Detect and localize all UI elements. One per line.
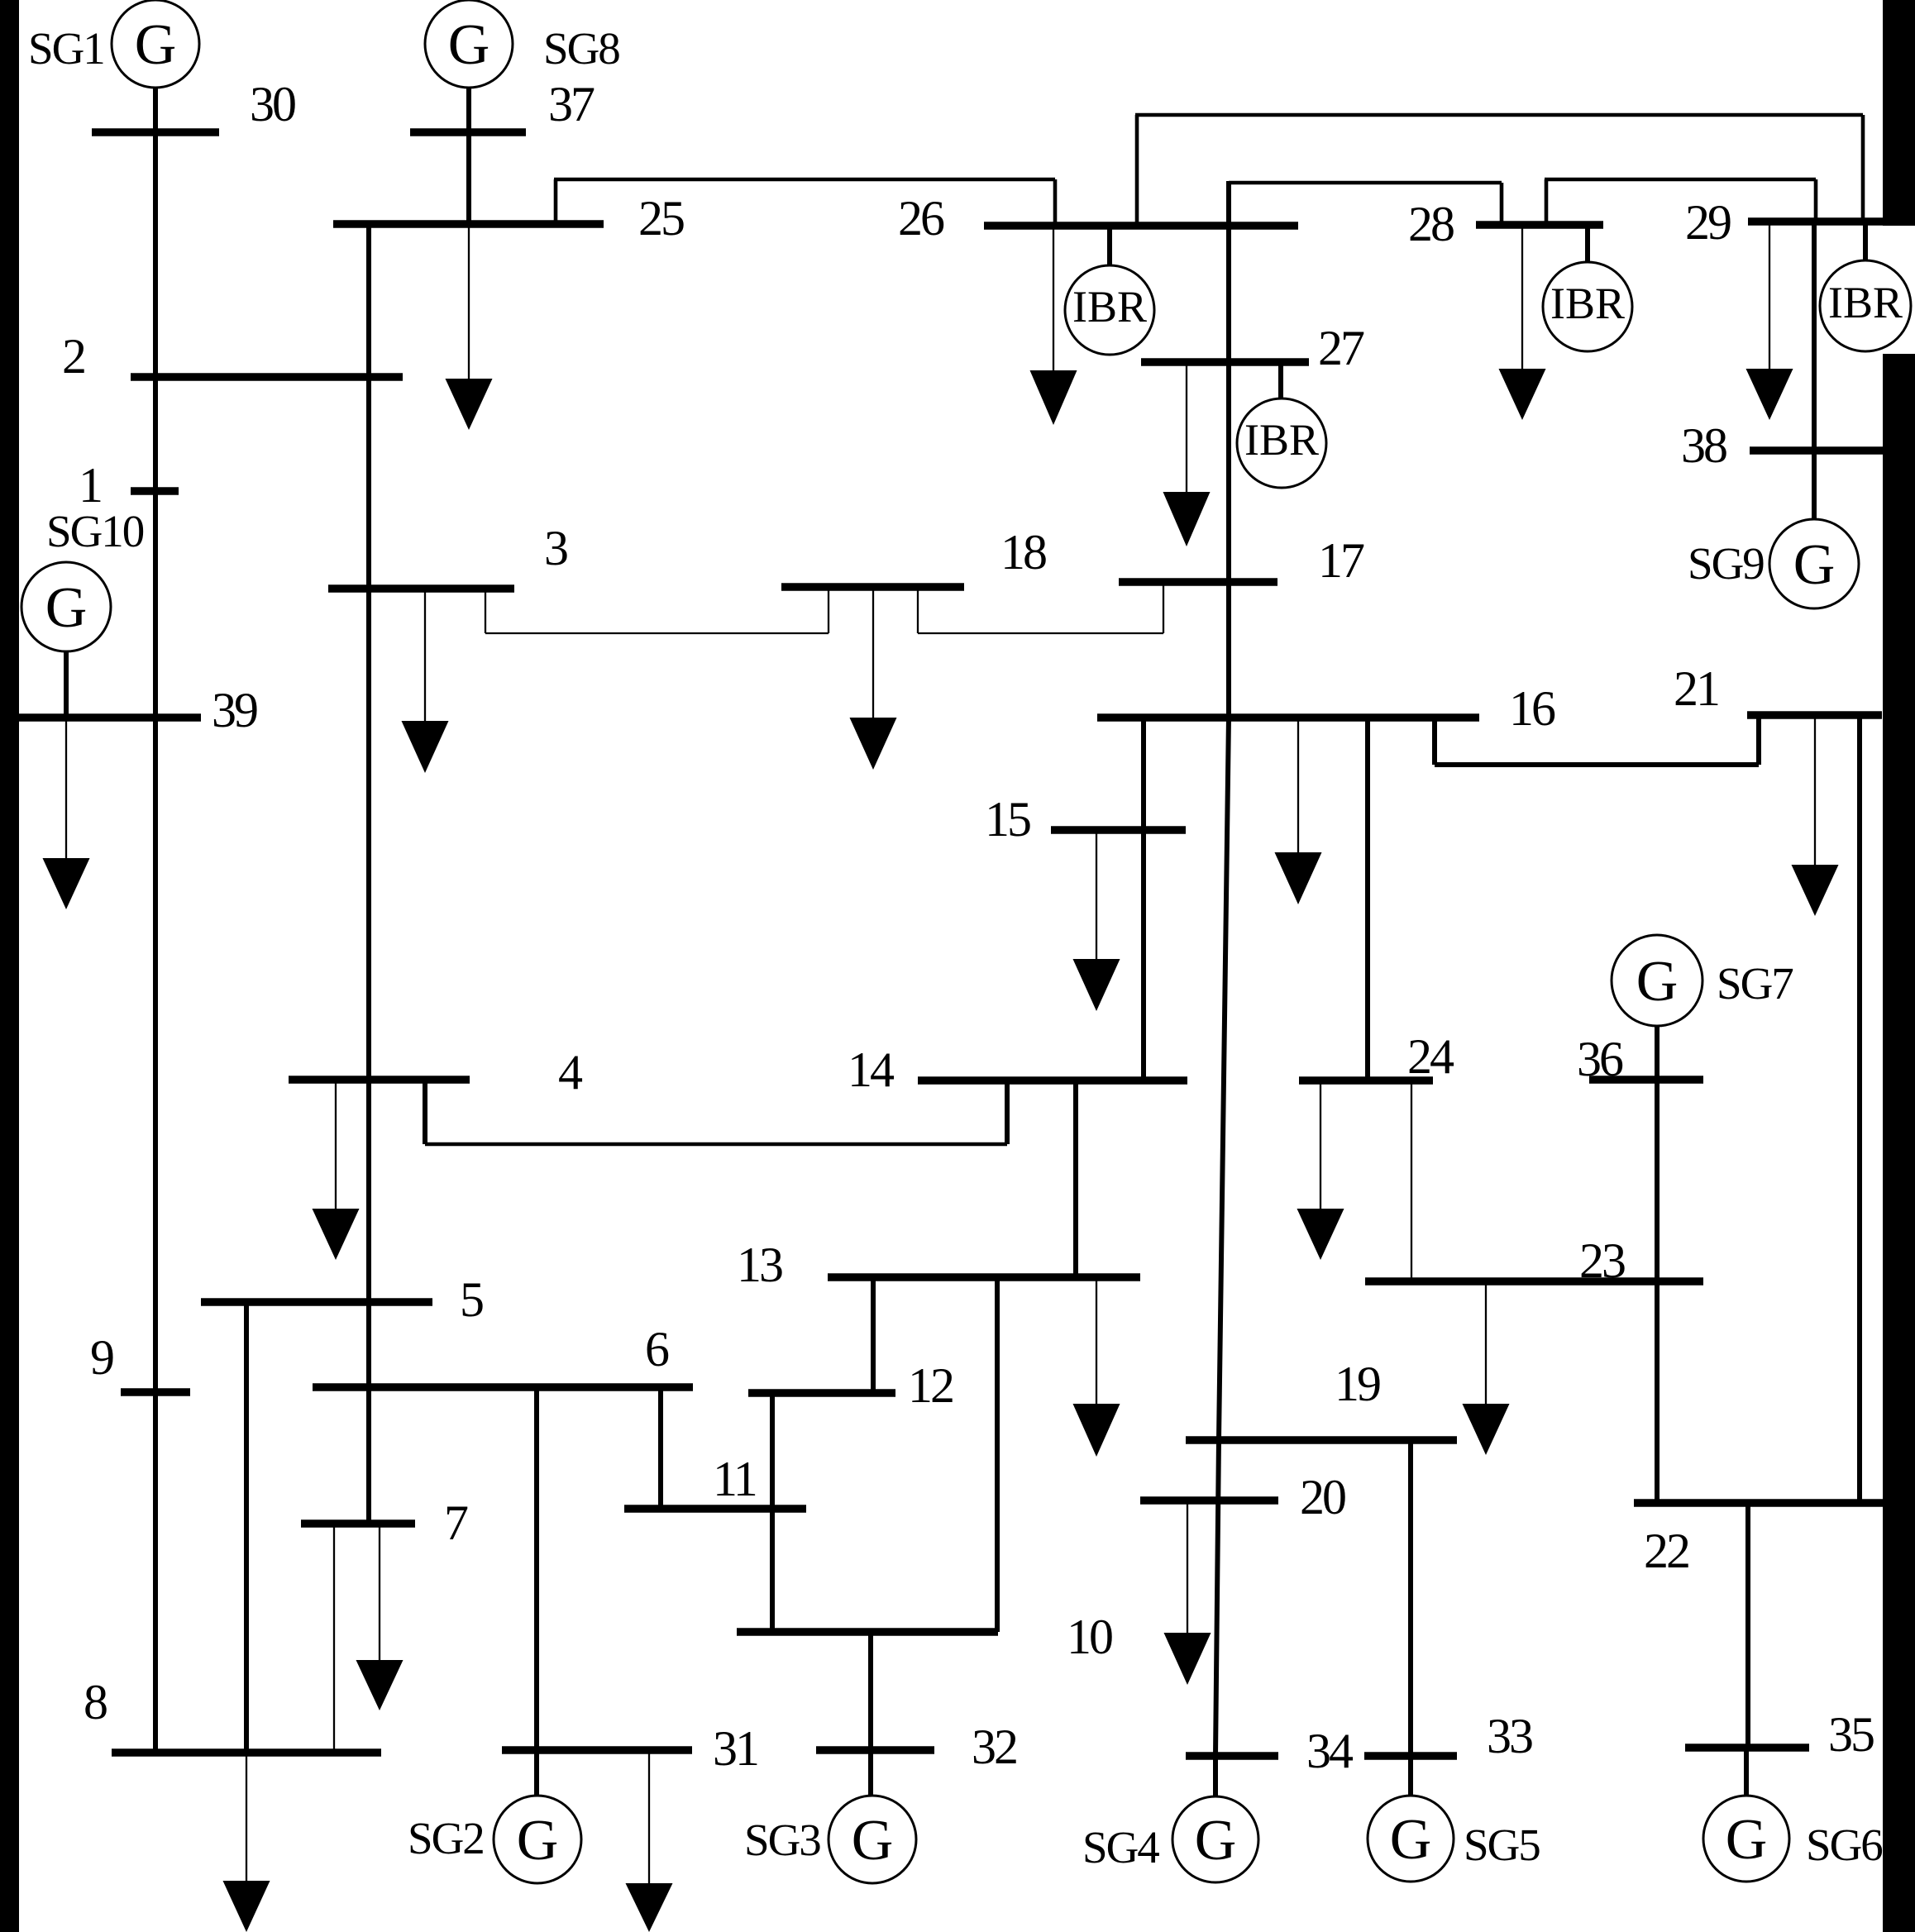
wire 26-27-17-16 vertical	[1226, 181, 1231, 718]
bus 37	[410, 128, 526, 136]
wire 26-28	[1229, 183, 1502, 225]
wire 16-15-14 vertical	[1141, 718, 1146, 1080]
generator SG1 at bus 30	[112, 0, 199, 88]
svg-text:G: G	[1793, 533, 1836, 597]
svg-text:SG5: SG5	[1464, 1820, 1540, 1870]
svg-text:35: 35	[1828, 1707, 1874, 1762]
bus 38	[1750, 446, 1885, 455]
wire 22-35 vertical	[1745, 1503, 1750, 1748]
svg-text:36: 36	[1577, 1032, 1623, 1086]
label bus 28	[1408, 197, 1454, 251]
wire IBR29 stub	[1863, 222, 1868, 262]
wire IBR28 stub	[1585, 225, 1590, 264]
bus 14	[918, 1076, 1187, 1085]
wire 25-2-3-4-5-6-7 vertical	[366, 224, 371, 1524]
label bus 27	[1318, 321, 1364, 375]
svg-text:15: 15	[985, 792, 1030, 847]
svg-text:37: 37	[548, 77, 595, 131]
load at bus 3	[402, 589, 449, 773]
bus 12	[748, 1389, 895, 1397]
label bus 29	[1685, 195, 1731, 250]
label bus 39	[212, 683, 257, 737]
generator SG5 at bus 33	[1368, 1796, 1454, 1882]
svg-text:33: 33	[1487, 1709, 1532, 1763]
label bus 22	[1644, 1524, 1688, 1578]
load at bus 28	[1499, 225, 1546, 420]
wire 16-21	[1435, 715, 1759, 765]
svg-text:SG9: SG9	[1688, 538, 1764, 589]
load at bus 21	[1792, 715, 1839, 916]
svg-text:28: 28	[1408, 197, 1454, 251]
generator SG10 at bus 39	[21, 562, 111, 651]
load at bus 23	[1463, 1281, 1510, 1455]
bus 32	[816, 1746, 934, 1754]
wire SG7 lead	[1655, 1024, 1660, 1080]
bus 26	[984, 222, 1298, 230]
bus 6	[313, 1383, 693, 1391]
bus 39	[19, 713, 201, 722]
wire SG5 lead	[1408, 1756, 1413, 1797]
load at bus 39	[43, 718, 90, 909]
svg-text:7: 7	[444, 1496, 468, 1550]
wire SG4 lead	[1213, 1756, 1218, 1798]
load at bus 24	[1297, 1080, 1344, 1260]
load at bus 8	[223, 1753, 270, 1932]
svg-text:G: G	[1726, 1808, 1768, 1872]
wire 25-26	[554, 179, 1055, 226]
svg-text:SG7: SG7	[1717, 958, 1793, 1009]
svg-text:18: 18	[1000, 525, 1046, 580]
svg-text:6: 6	[645, 1322, 669, 1376]
generator SG3 at bus 32	[829, 1796, 916, 1883]
label bus 31	[713, 1721, 757, 1776]
load at bus 7	[356, 1524, 404, 1710]
svg-text:23: 23	[1579, 1233, 1625, 1288]
left border bar	[0, 0, 19, 1932]
label bus 4	[558, 1045, 583, 1100]
svg-text:9: 9	[90, 1330, 113, 1385]
svg-text:11: 11	[713, 1452, 756, 1506]
svg-text:SG10: SG10	[46, 506, 144, 556]
svg-text:G: G	[448, 13, 490, 77]
bus 34	[1186, 1752, 1278, 1760]
svg-text:G: G	[45, 576, 88, 640]
bus 16	[1097, 713, 1479, 722]
svg-text:5: 5	[460, 1272, 483, 1327]
svg-text:25: 25	[638, 191, 684, 246]
label bus 1	[79, 458, 101, 513]
bus 36	[1589, 1076, 1703, 1084]
wire 24-23 thin vertical	[1411, 1080, 1412, 1281]
svg-text:29: 29	[1685, 195, 1731, 250]
bus 24	[1299, 1076, 1433, 1085]
wire SG1 lead	[153, 86, 158, 132]
wire SG3 lead	[868, 1750, 873, 1797]
wire IBR26 stub	[1107, 226, 1112, 268]
svg-text:4: 4	[558, 1045, 583, 1100]
generator SG8 at bus 37	[425, 0, 513, 88]
svg-text:14: 14	[848, 1042, 895, 1097]
svg-text:IBR: IBR	[1550, 279, 1625, 328]
IBR unit at bus 27	[1237, 398, 1326, 488]
bus 19	[1186, 1436, 1457, 1444]
label bus 26	[898, 191, 944, 246]
bus 7	[301, 1519, 415, 1528]
bus 29	[1748, 217, 1915, 226]
load at bus 20	[1164, 1500, 1211, 1685]
wire 3-18 thin	[485, 589, 829, 633]
svg-text:17: 17	[1318, 533, 1364, 588]
label bus 10	[1067, 1610, 1112, 1664]
svg-text:SG8: SG8	[543, 23, 619, 74]
svg-text:34: 34	[1306, 1724, 1354, 1778]
label bus 18	[1000, 525, 1046, 580]
svg-text:8: 8	[84, 1675, 107, 1729]
bus 25	[333, 220, 604, 228]
label SG7	[1717, 958, 1793, 1009]
label bus 21	[1674, 661, 1718, 716]
wire 19-33 vertical	[1408, 1440, 1413, 1756]
generator SG4 at bus 34	[1172, 1796, 1258, 1882]
svg-text:21: 21	[1674, 661, 1718, 716]
wire 6-11 vertical	[658, 1387, 663, 1509]
svg-text:20: 20	[1300, 1470, 1345, 1524]
generator SG9 at bus 38	[1769, 519, 1859, 608]
svg-text:SG6: SG6	[1806, 1820, 1882, 1870]
label bus 19	[1335, 1357, 1380, 1411]
bus 23	[1365, 1277, 1703, 1286]
IBR unit at bus 29	[1820, 260, 1911, 351]
wire 30-2-1-39-9-8 vertical	[153, 132, 158, 1753]
bus 28	[1476, 221, 1603, 229]
load at bus 31	[626, 1750, 673, 1932]
bus 22	[1634, 1499, 1885, 1507]
bus 11	[624, 1505, 806, 1513]
bus 18	[781, 583, 964, 591]
label bus 38	[1681, 418, 1726, 473]
generator SG7 at bus 36	[1612, 935, 1702, 1026]
svg-text:12: 12	[908, 1358, 953, 1413]
wire SG10 lead	[64, 650, 69, 718]
wire SG9 lead	[1812, 451, 1817, 521]
bus 15	[1051, 826, 1186, 834]
load at bus 15	[1073, 830, 1120, 1011]
wire 12-11-10 vertical	[770, 1393, 775, 1632]
load at bus 26	[1030, 226, 1077, 425]
label SG2	[408, 1813, 484, 1863]
svg-text:31: 31	[713, 1721, 757, 1776]
load at bus 13	[1073, 1277, 1120, 1457]
wire 6-31 vertical	[534, 1387, 539, 1750]
svg-text:32: 32	[972, 1720, 1016, 1774]
wire SG2 lead	[534, 1750, 539, 1797]
load at bus 16	[1275, 718, 1322, 904]
wire 28-29	[1545, 179, 1816, 225]
svg-text:26: 26	[898, 191, 944, 246]
svg-text:30: 30	[250, 77, 295, 131]
bus 10	[737, 1628, 998, 1636]
label SG4	[1082, 1822, 1159, 1872]
label SG10	[46, 506, 144, 556]
generator SG6 at bus 35	[1703, 1796, 1789, 1882]
IBR unit at bus 26	[1065, 265, 1154, 355]
label bus 7	[444, 1496, 468, 1550]
label bus 24	[1407, 1029, 1454, 1084]
label bus 25	[638, 191, 684, 246]
label bus 3	[544, 521, 567, 575]
label bus 11	[713, 1452, 756, 1506]
svg-text:SG4: SG4	[1082, 1822, 1159, 1872]
bus 4	[289, 1076, 470, 1084]
wire 26-29	[1135, 115, 1863, 226]
svg-text:G: G	[852, 1809, 894, 1872]
load at bus 25	[446, 224, 493, 430]
load at bus 18	[850, 587, 897, 770]
wire 18-17 thin	[918, 582, 1163, 633]
label SG6	[1806, 1820, 1882, 1870]
bus 8	[112, 1748, 381, 1757]
wire SG6 lead	[1744, 1748, 1749, 1796]
label SG5	[1464, 1820, 1540, 1870]
label bus 36	[1577, 1032, 1623, 1086]
load at bus 29	[1746, 222, 1793, 420]
bus 33	[1364, 1752, 1457, 1760]
wire 7-8 thin vertical	[333, 1524, 335, 1753]
wire SG7-36-23-22 vertical	[1655, 1026, 1660, 1503]
bus 30	[92, 128, 219, 136]
svg-text:2: 2	[62, 329, 84, 384]
wire 5-8 vertical	[244, 1302, 249, 1753]
bus 31	[502, 1746, 692, 1754]
wire 10-32 vertical	[868, 1632, 873, 1750]
bus 9	[121, 1388, 190, 1396]
label bus 13	[737, 1238, 782, 1292]
svg-text:19: 19	[1335, 1357, 1380, 1411]
svg-text:24: 24	[1407, 1029, 1454, 1084]
wire 16-19-20-34 vertical	[1215, 718, 1229, 1756]
label bus 32	[972, 1720, 1016, 1774]
label bus 15	[985, 792, 1030, 847]
label bus 17	[1318, 533, 1364, 588]
label bus 6	[645, 1322, 669, 1376]
label bus 9	[90, 1330, 113, 1385]
wire 37-25 generator feed	[466, 86, 471, 224]
label SG8	[543, 23, 619, 74]
label bus 16	[1509, 681, 1555, 736]
bus 3	[328, 584, 514, 593]
label bus 14	[848, 1042, 895, 1097]
svg-text:G: G	[517, 1809, 559, 1872]
wire 29-38	[1812, 222, 1817, 451]
label bus 12	[908, 1358, 953, 1413]
wire 13-12 vertical	[871, 1277, 876, 1393]
label bus 33	[1487, 1709, 1532, 1763]
label bus 23	[1579, 1233, 1625, 1288]
svg-text:16: 16	[1509, 681, 1555, 736]
svg-text:10: 10	[1067, 1610, 1112, 1664]
wire 14-13 vertical	[1073, 1080, 1078, 1277]
svg-text:SG3: SG3	[744, 1815, 820, 1865]
label SG3	[744, 1815, 820, 1865]
label bus 20	[1300, 1470, 1345, 1524]
IBR unit at bus 28	[1543, 262, 1632, 351]
wire 16-24 vertical	[1365, 718, 1370, 1080]
svg-text:G: G	[1195, 1809, 1237, 1872]
svg-text:1: 1	[79, 458, 101, 513]
label bus 5	[460, 1272, 483, 1327]
svg-text:IBR: IBR	[1244, 415, 1319, 465]
svg-text:IBR: IBR	[1072, 282, 1147, 332]
svg-text:13: 13	[737, 1238, 782, 1292]
bus 35	[1685, 1744, 1809, 1752]
label bus 30	[250, 77, 295, 131]
label bus 2	[62, 329, 84, 384]
bus 2	[131, 373, 403, 381]
right border bar upper	[1883, 0, 1915, 226]
svg-text:SG2: SG2	[408, 1813, 484, 1863]
bus 20	[1140, 1496, 1278, 1505]
svg-text:3: 3	[544, 521, 567, 575]
label SG9	[1688, 538, 1764, 589]
svg-text:39: 39	[212, 683, 257, 737]
svg-text:SG1: SG1	[28, 23, 104, 74]
right border bar lower	[1883, 354, 1915, 1932]
svg-text:IBR: IBR	[1828, 278, 1903, 327]
svg-text:38: 38	[1681, 418, 1726, 473]
svg-text:G: G	[135, 13, 177, 77]
svg-text:G: G	[1636, 950, 1679, 1014]
label SG1	[28, 23, 104, 74]
svg-text:27: 27	[1318, 321, 1364, 375]
bus 1	[131, 487, 179, 495]
label bus 35	[1828, 1707, 1874, 1762]
svg-text:22: 22	[1644, 1524, 1688, 1578]
generator SG2 at bus 31	[494, 1796, 581, 1883]
wire 13-10 vertical	[995, 1277, 1000, 1632]
bus 21	[1747, 711, 1882, 719]
wire 4-14	[425, 1080, 1007, 1144]
svg-text:G: G	[1390, 1808, 1432, 1872]
label bus 37	[548, 77, 595, 131]
bus 13	[828, 1273, 1140, 1281]
label bus 8	[84, 1675, 107, 1729]
wire IBR27 stub	[1278, 362, 1283, 400]
load at bus 27	[1163, 362, 1211, 546]
label bus 34	[1306, 1724, 1354, 1778]
wire 21-22	[1857, 715, 1862, 1503]
bus 5	[201, 1298, 432, 1306]
load at bus 4	[313, 1080, 360, 1260]
bus 27	[1141, 358, 1309, 366]
bus 17	[1119, 578, 1277, 586]
